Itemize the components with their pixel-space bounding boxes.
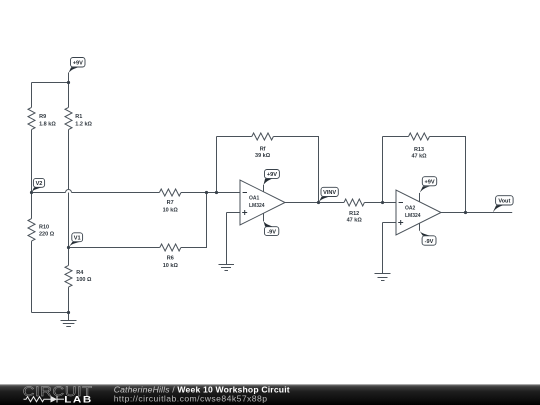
node summing junction (R7/R6) (205, 191, 208, 194)
node +9V rail junction (67, 81, 70, 84)
net tag Vout (493, 196, 513, 213)
wire R6 to summing junction riser (181, 193, 207, 248)
power tag -9V (OA2) (420, 231, 437, 246)
svg-text:Rf: Rf (260, 146, 266, 152)
wire OA2 + to ground (382, 223, 384, 274)
node feedback junction (Rf riser) (215, 191, 218, 194)
wire hop to R7 (72, 192, 160, 194)
op-amp OA2 (396, 190, 441, 235)
svg-text:V1: V1 (74, 236, 81, 242)
svg-text:R13: R13 (414, 147, 424, 153)
svg-text:R6: R6 (167, 256, 174, 262)
node VINV junction (317, 201, 320, 204)
wire R13 feedback riser (382, 137, 384, 203)
wire OA1 + to ground (226, 213, 228, 265)
svg-text:LAB: LAB (64, 395, 93, 405)
wire right column middle (R1 to node V1) (68, 130, 70, 248)
wire R7 to OA1 inverting input (181, 192, 240, 194)
wire Rf rail left (217, 136, 252, 138)
label R12 value (347, 211, 363, 224)
svg-text:100 Ω: 100 Ω (76, 277, 92, 283)
ground GND2 (OA1 noninverting) (219, 265, 235, 271)
resistor R1 (65, 107, 72, 129)
label R6 value (163, 256, 179, 269)
wire left column middle (R9 to node V2) (31, 130, 33, 219)
node V2 junction (30, 191, 33, 194)
op-amp OA1 (240, 180, 285, 225)
wire OA1 noninverting input (227, 212, 241, 214)
wire OA1 negative supply pin stub (263, 214, 265, 222)
svg-text:R1: R1 (75, 114, 82, 120)
wire OA2 noninverting input (383, 222, 397, 224)
wire +9V stub (68, 73, 70, 83)
label R4 value (76, 270, 92, 283)
svg-text:10 kΩ: 10 kΩ (163, 263, 179, 269)
wire R13 rail right and drop to output (430, 137, 466, 213)
svg-text:+9V: +9V (73, 60, 83, 66)
wire R13 rail left (383, 136, 409, 138)
net tag V1 (69, 233, 83, 248)
svg-text:LM324: LM324 (405, 213, 421, 219)
ground GND1 (bottom left rail) (61, 313, 77, 327)
wire OA2 negative supply pin stub (419, 223, 421, 231)
wire bottom rail to ground (32, 312, 69, 314)
power tag -9V (OA1) (264, 221, 279, 235)
wire top horizontal +9V rail (32, 82, 69, 84)
svg-text:LM324: LM324 (249, 203, 265, 209)
logo waveform and diode (24, 396, 65, 403)
wire right column upper (+9V node to R1) (68, 83, 70, 108)
wire feedback riser to Rf rail (216, 137, 218, 193)
net tag VINV (319, 187, 339, 202)
ground GND3 (OA2 noninverting) (375, 274, 391, 281)
wire OA2 output to Vout (441, 212, 512, 214)
resistor R9 (28, 107, 35, 129)
label R7 value (163, 200, 179, 213)
svg-text:10 kΩ: 10 kΩ (163, 208, 179, 214)
svg-text:R9: R9 (39, 114, 46, 120)
wire R12 to OA2 inverting input (364, 202, 396, 204)
wire right column (V1 to R4) (68, 248, 70, 266)
power tag +9V (rail) (69, 58, 86, 74)
svg-text:R7: R7 (167, 200, 174, 206)
svg-text:R10: R10 (39, 225, 49, 231)
wire left column upper (node +9V to R9) (31, 83, 33, 108)
label R9 value (39, 114, 56, 128)
svg-text:47 kΩ: 47 kΩ (347, 217, 363, 223)
wire node V2 to hop (32, 192, 66, 194)
node V1 junction (67, 246, 70, 249)
node Vout feedback junction (464, 211, 467, 214)
svg-text:1.2 kΩ: 1.2 kΩ (75, 121, 92, 127)
svg-text:V2: V2 (36, 181, 43, 187)
resistor R13 (409, 133, 430, 140)
svg-text:R12: R12 (349, 211, 359, 217)
resistor R4 (65, 265, 72, 287)
wire Rf rail right and drop to output (273, 137, 318, 203)
svg-text:+9V: +9V (267, 172, 277, 178)
net tag V2 (32, 178, 45, 192)
wire left column lower (R10 to bottom rail) (31, 241, 33, 312)
power tag +9V (OA2) (420, 177, 437, 193)
footer bar (0, 384, 540, 405)
power tag +9V (OA1) (264, 170, 280, 185)
svg-text:OA2: OA2 (405, 205, 416, 211)
svg-text:1.8 kΩ: 1.8 kΩ (39, 121, 56, 127)
wire OA1 positive supply pin stub (263, 185, 265, 192)
resistor R6 (160, 244, 181, 251)
svg-text:-9V: -9V (425, 239, 434, 245)
resistor R12 (344, 199, 364, 206)
svg-text:OA1: OA1 (249, 195, 260, 201)
svg-text:39 kΩ: 39 kΩ (255, 153, 271, 159)
resistor R10 (28, 219, 35, 242)
label Rf value (255, 146, 271, 159)
label R1 value (75, 114, 92, 128)
svg-text:220 Ω: 220 Ω (39, 231, 55, 237)
node ground junction (bottom rail) (67, 311, 70, 314)
wire OA2 positive supply pin stub (419, 193, 421, 202)
svg-text:http://circuitlab.com/cwse84k5: http://circuitlab.com/cwse84k57x88p (114, 393, 268, 403)
node R12/R13 junction (381, 201, 384, 204)
svg-text:R4: R4 (76, 270, 84, 276)
label R10 value (39, 225, 55, 238)
wire node V1 to R6 (69, 247, 160, 249)
svg-text:+9V: +9V (424, 180, 434, 186)
svg-text:47 kΩ: 47 kΩ (411, 154, 427, 160)
svg-text:VINV: VINV (323, 190, 336, 196)
wire R4 to ground junction (68, 287, 70, 312)
wire hop over R1 column (66, 190, 72, 193)
svg-text:Vout: Vout (498, 199, 510, 205)
wire OA1 output to R12 (285, 202, 344, 204)
resistor Rf (252, 133, 274, 140)
label R13 value (411, 147, 427, 160)
svg-text:-9V: -9V (267, 229, 276, 235)
resistor R7 (159, 189, 181, 196)
